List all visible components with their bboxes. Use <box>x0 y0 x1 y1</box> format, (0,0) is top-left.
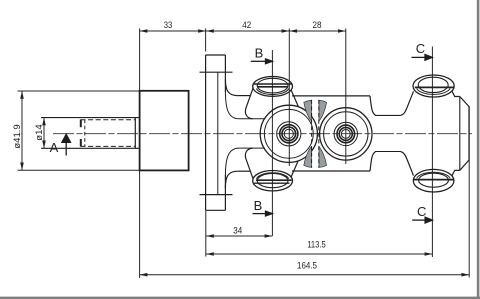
svg-text:113.5: 113.5 <box>307 240 326 251</box>
svg-text:ø41.9: ø41.9 <box>12 124 23 148</box>
svg-text:42: 42 <box>242 20 251 31</box>
svg-text:B: B <box>254 198 263 213</box>
svg-text:C: C <box>417 204 426 219</box>
svg-text:34: 34 <box>233 225 242 236</box>
svg-text:33: 33 <box>164 20 173 31</box>
svg-text:A: A <box>50 140 59 155</box>
svg-text:28: 28 <box>313 20 322 31</box>
svg-text:ø14: ø14 <box>34 124 45 140</box>
svg-text:B: B <box>255 46 264 61</box>
svg-text:164.5: 164.5 <box>297 260 317 271</box>
svg-text:C: C <box>416 41 425 56</box>
